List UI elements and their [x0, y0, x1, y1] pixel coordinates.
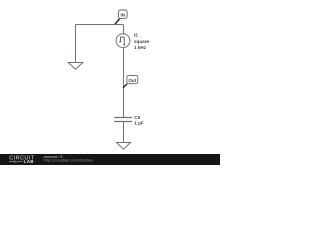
- svg-text:Out: Out: [128, 78, 136, 83]
- svg-text:1 kHz: 1 kHz: [134, 45, 147, 50]
- svg-text:1 µF: 1 µF: [134, 121, 143, 126]
- svg-text:IN: IN: [121, 13, 126, 18]
- svg-text:http://circuitlab.com/99i16en: http://circuitlab.com/99i16en: [44, 158, 94, 163]
- svg-text:LAB: LAB: [24, 159, 35, 164]
- svg-text:square: square: [134, 39, 150, 44]
- svg-text:C5: C5: [134, 115, 140, 120]
- svg-text:I2: I2: [134, 33, 138, 38]
